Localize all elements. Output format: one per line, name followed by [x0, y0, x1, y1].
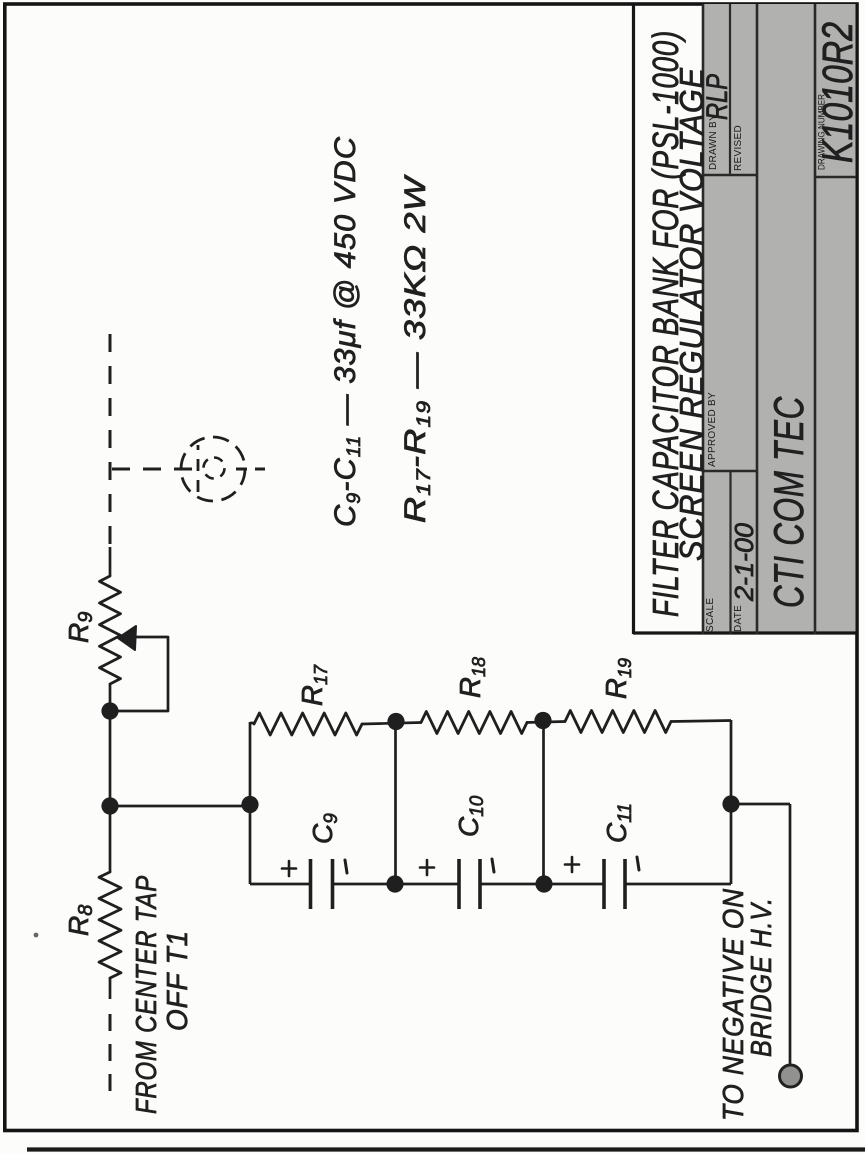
- C9 polarity +: [282, 861, 296, 876]
- svg-text:FROM CENTER TAP: FROM CENTER TAP: [131, 875, 163, 1114]
- node cap rail 1: [386, 875, 403, 892]
- svg-text:R17-R19 — 33KΩ 2W: R17-R19 — 33KΩ 2W: [399, 174, 435, 523]
- node R17/R18: [387, 713, 404, 730]
- svg-text:R17: R17: [297, 664, 331, 706]
- wire node to node: [109, 711, 112, 806]
- terminal ball: [780, 1065, 802, 1087]
- capacitor C11 plates: [602, 859, 606, 909]
- svg-text:C9-C11 — 33μf @ 450 VDC: C9-C11 — 33μf @ 450 VDC: [329, 136, 365, 527]
- node cap rail 2: [535, 875, 552, 892]
- svg-text:R19: R19: [601, 658, 635, 699]
- C10 polarity +: [420, 860, 434, 875]
- svg-text:SCREEN REGULATOR VOLTAGE: SCREEN REGULATOR VOLTAGE: [673, 67, 710, 561]
- svg-text:SCALE: SCALE: [705, 598, 716, 632]
- resistor R19: [565, 711, 671, 733]
- svg-text:RLP: RLP: [701, 74, 734, 120]
- capacitor C10 plates: [457, 859, 461, 909]
- wire cap rail segment 2: [334, 883, 460, 886]
- dashed wire beyond R9: [109, 324, 112, 544]
- svg-text:C9: C9: [307, 813, 342, 844]
- resistor R17: [254, 713, 362, 735]
- scanner edge strip at bottom: [27, 1147, 865, 1151]
- svg-text:DATE: DATE: [733, 605, 744, 632]
- C11 polarity +: [565, 857, 579, 872]
- wiper loop wire: [112, 637, 168, 711]
- socket outer dashed circle: [181, 437, 245, 501]
- svg-text:REVISED: REVISED: [733, 125, 744, 171]
- wire resistor chain top: [250, 722, 254, 725]
- potentiometer wiper arrow: [118, 626, 136, 650]
- svg-text:R8: R8: [63, 905, 97, 936]
- resistor R8: [99, 872, 121, 978]
- wire bottom bus: [730, 720, 733, 884]
- wire R8 to node: [109, 806, 112, 872]
- resistor R9 (pot): [100, 576, 121, 684]
- svg-text:2-1-00: 2-1-00: [729, 522, 759, 602]
- svg-text:APPROVED BY: APPROVED BY: [707, 392, 718, 467]
- svg-text:C10: C10: [453, 795, 488, 837]
- wire cap rail segment 1: [250, 883, 311, 886]
- wire cap rail segment 4: [625, 883, 731, 886]
- resistor R18: [421, 712, 527, 734]
- wire to R8: [109, 978, 112, 999]
- C11 polarity -: [637, 857, 639, 870]
- svg-text:K1010R2: K1010R2: [814, 22, 862, 163]
- node output: [722, 795, 739, 812]
- wire output to terminal: [789, 804, 792, 1066]
- socket inner dashed circle: [204, 458, 225, 479]
- wire output down: [731, 803, 790, 806]
- svg-text:CTI COM TEC: CTI COM TEC: [765, 396, 812, 608]
- wire top bus: [249, 722, 252, 884]
- svg-text:R9: R9: [63, 612, 97, 643]
- node R18/R19: [534, 712, 551, 729]
- node: R8/feed junction: [101, 797, 118, 814]
- dashed branch wire to socket: [112, 468, 193, 471]
- wire: dashed lead from center tap (bottom-left of portrait): [109, 1011, 112, 1091]
- wire from R9: [109, 547, 112, 576]
- node: R9/wiper junction: [101, 702, 118, 719]
- wire resistor chain bottom: [671, 721, 731, 722]
- C9 polarity -: [345, 860, 347, 873]
- socket dashed chord: [197, 445, 200, 492]
- wire between R17 R18: [362, 723, 421, 725]
- svg-text:DRAWN BY: DRAWN BY: [708, 114, 719, 170]
- title block: [703, 4, 856, 633]
- stray speck: [34, 933, 39, 938]
- wire cap rail segment 3: [480, 883, 604, 886]
- svg-text:OFF T1: OFF T1: [162, 930, 194, 1031]
- node feed/top-bus: [241, 796, 258, 813]
- wire rung node to cap rail (C9/C10): [394, 722, 397, 884]
- svg-text:C11: C11: [601, 803, 636, 843]
- wire feed from rail to bus: [110, 805, 250, 808]
- wire between R18 R19: [526, 722, 565, 723]
- wire to R9: [109, 684, 112, 711]
- svg-text:BRIDGE H.V.: BRIDGE H.V.: [746, 897, 778, 1057]
- capacitor C9 plates: [309, 859, 313, 909]
- svg-text:R18: R18: [455, 657, 489, 698]
- wire rung node to cap rail (C10/C11): [542, 721, 545, 884]
- C10 polarity -: [492, 859, 494, 872]
